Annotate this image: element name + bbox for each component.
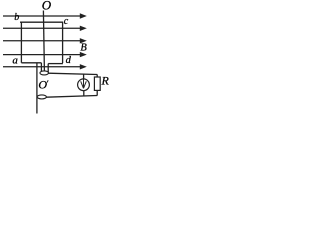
svg-text:B: B bbox=[80, 43, 87, 54]
svg-text:O: O bbox=[38, 78, 47, 92]
svg-text:O: O bbox=[42, 0, 52, 12]
svg-text:a: a bbox=[12, 54, 18, 66]
svg-text:c: c bbox=[64, 16, 69, 27]
svg-text:b: b bbox=[14, 12, 19, 23]
svg-text:R: R bbox=[101, 73, 110, 87]
svg-text:d: d bbox=[66, 55, 72, 66]
